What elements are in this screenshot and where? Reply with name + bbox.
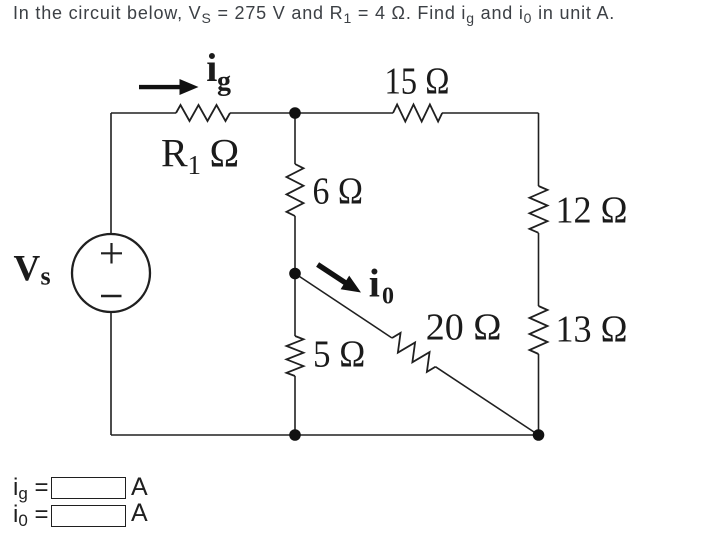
resistor 12 ohm (zigzag, right wire) [530,186,548,233]
voltage source Vs (circle) [72,234,150,312]
node junction dot middle (diagonal start) [289,268,301,280]
resistor 15 ohm (zigzag, top wire) [393,105,442,122]
wire diagonal upper segment [295,274,392,339]
wire top-left segment [111,112,176,114]
svg-text:g: g [217,66,231,97]
answer unit A (row 2) [131,502,148,525]
current arrow i0 [316,262,361,292]
wire bottom segment [111,434,539,436]
wire middle lower segment [294,376,296,435]
answer label ig = [13,476,49,505]
svg-text:1: 1 [188,150,202,180]
svg-text:R: R [161,131,188,176]
wire middle between 6 ohm and node [294,216,296,336]
current arrow ig [139,79,199,95]
node junction dot top middle [289,107,301,119]
svg-text:12 Ω: 12 Ω [556,189,628,231]
answer label i0 = [13,503,49,532]
wire diagonal lower segment [435,367,538,435]
resistor 20 ohm (zigzag on diagonal) [387,330,440,374]
node junction dot bottom middle [289,429,301,441]
title text [13,2,615,30]
svg-text:5 Ω: 5 Ω [313,333,365,375]
wire right middle segment [538,233,540,306]
svg-text:6 Ω: 6 Ω [313,171,364,213]
plus sign inside source [101,243,122,264]
wire middle upper segment [294,113,296,164]
resistor 6 ohm (zigzag, middle wire) [287,164,304,216]
wire top-middle segment [230,112,393,114]
resistor 5 ohm (zigzag, middle wire) [287,336,304,376]
svg-text:i: i [369,261,380,306]
wire left upper segment [110,113,112,234]
svg-text:i: i [206,45,217,90]
answer unit A (row 1) [131,476,148,499]
answer input box i0 [51,505,126,527]
svg-text:Ω: Ω [210,131,240,176]
wire right lower segment [538,354,540,435]
svg-text:13 Ω: 13 Ω [556,309,628,351]
wire left lower segment [110,312,112,435]
wire right upper segment [538,113,540,186]
answer input box ig [51,477,126,499]
wire top-right segment [442,112,539,114]
svg-text:20 Ω: 20 Ω [426,307,502,349]
resistor R1 (zigzag, top wire) [176,105,230,121]
svg-text:0: 0 [382,284,394,310]
minus sign inside source [101,295,122,298]
resistor 13 ohm (zigzag, right wire) [530,306,548,354]
svg-text:V: V [14,249,41,290]
svg-text:s: s [41,262,51,291]
node junction dot bottom right [533,429,545,441]
svg-text:15 Ω: 15 Ω [385,61,450,103]
